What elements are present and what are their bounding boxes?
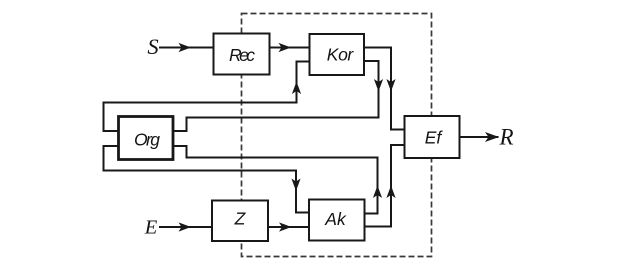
svg-text:Ak: Ak xyxy=(324,209,347,229)
svg-text:Z: Z xyxy=(234,209,247,229)
svg-text:Kor: Kor xyxy=(327,45,355,65)
svg-text:E: E xyxy=(144,217,158,239)
svg-text:Org: Org xyxy=(134,130,160,150)
svg-text:Ef: Ef xyxy=(425,128,444,148)
svg-text:S: S xyxy=(147,34,158,59)
svg-text:Rec: Rec xyxy=(229,45,255,65)
svg-text:R: R xyxy=(498,125,513,150)
